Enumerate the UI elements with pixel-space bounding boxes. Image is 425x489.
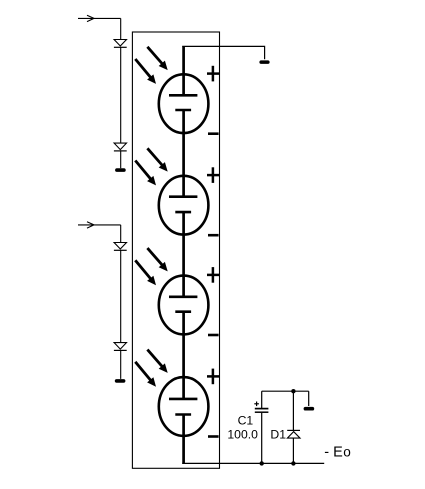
- svg-text:- E: - E: [324, 445, 343, 461]
- wire: series string segment 1: [182, 46, 185, 95]
- wire: series string segment 2: [182, 110, 185, 198]
- input arrow 2: [78, 222, 121, 228]
- solar cell 4 plus sign: [207, 369, 219, 385]
- wire: series string segment 5: [182, 414, 185, 464]
- terminal pad 1: [115, 168, 126, 172]
- module boundary box: [132, 32, 219, 468]
- wire: diode 1 to diode 2: [120, 47, 122, 143]
- solar cell 1 body: [159, 74, 209, 133]
- solar cell 3 light ray arrow b: [135, 260, 156, 285]
- wire: string top to upper terminal: [182, 46, 264, 59]
- solar cell 4 negative plate: [175, 413, 191, 416]
- wire: arrow 2 to diode chain: [120, 225, 122, 243]
- wire: diode 2 to terminal: [120, 150, 122, 168]
- solar cell 2 plus sign: [207, 167, 219, 183]
- capacitor C1: [255, 391, 269, 463]
- solar cell 4 light ray arrow b: [135, 362, 156, 387]
- solar cell 3 minus sign: [208, 334, 219, 337]
- solar cell 3 body: [159, 276, 209, 335]
- solar cell 2 body: [159, 176, 209, 235]
- svg-text:100.0: 100.0: [227, 427, 258, 441]
- solar cell 3 light ray arrow a: [147, 248, 167, 271]
- junction dot top rail: [291, 389, 295, 393]
- wire: capacitor top rail: [262, 390, 309, 392]
- svg-text:C1: C1: [238, 414, 254, 428]
- solar cell 3 negative plate: [175, 310, 191, 313]
- wire: diode 4 to terminal: [120, 350, 122, 379]
- solar cell 1 light ray arrow b: [135, 59, 156, 84]
- bypass diode 4: [114, 343, 127, 351]
- junction dot bottom rail right: [291, 461, 295, 465]
- solar cell 2 positive plate: [169, 195, 197, 198]
- wire: bottom output rail: [182, 462, 324, 464]
- svg-text:o: o: [343, 445, 351, 460]
- bypass diode 2: [114, 143, 127, 151]
- svg-text:D1: D1: [270, 427, 286, 441]
- label - Eo output: [324, 445, 351, 461]
- solar cell 3 plus sign: [207, 267, 219, 283]
- solar cell 2 minus sign: [208, 234, 219, 237]
- solar cell 1 plus sign: [207, 66, 219, 82]
- junction dot bottom rail left: [260, 461, 264, 465]
- wire: series string segment 3: [182, 212, 185, 298]
- terminal pad 3: [259, 60, 269, 64]
- diode D1: [287, 391, 300, 463]
- solar cell 2 light ray arrow b: [135, 161, 156, 186]
- wire: diode 3 to diode 4: [120, 250, 122, 343]
- solar cell 1 light ray arrow a: [147, 47, 167, 70]
- input arrow 1: [78, 15, 121, 21]
- solar cell 2 light ray arrow a: [147, 148, 167, 171]
- solar cell 4 light ray arrow a: [147, 350, 167, 373]
- solar cell 3 positive plate: [169, 295, 197, 298]
- solar cell 2 negative plate: [175, 211, 191, 214]
- solar cell 4 minus sign: [208, 435, 219, 438]
- solar cell 4 body: [159, 377, 209, 436]
- bypass diode 3: [114, 243, 127, 251]
- solar cell 4 positive plate: [169, 398, 197, 401]
- wire: top rail to terminal 4: [308, 391, 310, 406]
- solar cell 1 minus sign: [208, 132, 219, 135]
- terminal pad 2: [115, 379, 126, 383]
- solar cell 1 negative plate: [175, 109, 191, 112]
- capacitor C1 polarity plus: [254, 402, 259, 407]
- terminal pad 4: [304, 407, 315, 411]
- wire: series string segment 4: [182, 311, 185, 399]
- wire: arrow 1 to diode chain: [120, 18, 122, 39]
- solar cell 1 positive plate: [169, 94, 197, 97]
- bypass diode 1: [114, 40, 127, 48]
